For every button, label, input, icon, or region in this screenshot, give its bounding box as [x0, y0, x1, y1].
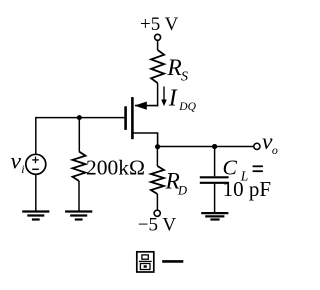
svg-text:DQ: DQ: [178, 101, 196, 113]
terminal vo: [254, 143, 260, 149]
svg-text:10 pF: 10 pF: [223, 177, 271, 201]
resistor RS: [151, 50, 164, 83]
current arrow IDQ: [163, 87, 165, 102]
node -5V supply terminal: [154, 210, 160, 216]
wire RS to source lead: [157, 83, 159, 106]
svg-text:−5 V: −5 V: [138, 215, 177, 236]
wire junction to RD: [156, 147, 158, 167]
caption figure-one char TU inner box: [140, 264, 150, 270]
node drain junction: [155, 144, 160, 149]
wire gate: [36, 117, 125, 119]
caption figure-one char TU inner dot: [144, 265, 147, 267]
svg-text:+5 V: +5 V: [140, 14, 179, 35]
caption figure-one char ONE: [162, 260, 183, 263]
source vi minus: [32, 168, 39, 170]
svg-text:S: S: [181, 70, 188, 85]
node gate junction: [77, 115, 82, 120]
wire RD to -5V terminal: [156, 194, 158, 210]
ground under vi: [22, 210, 49, 212]
wire CL top: [214, 147, 216, 177]
source vi circle: [26, 154, 46, 174]
caption figure-one char TU (outer box): [137, 252, 154, 272]
svg-text:v: v: [11, 149, 22, 175]
node CL junction: [212, 144, 217, 149]
svg-text:i: i: [21, 162, 24, 176]
wire vi to gate: [35, 117, 37, 154]
wire output: [158, 146, 254, 148]
svg-text:I: I: [168, 85, 178, 111]
svg-text:R: R: [166, 55, 181, 81]
transistor M1 channel bar: [131, 97, 134, 139]
wire supply to RS: [157, 40, 159, 50]
wire CL bottom: [214, 184, 216, 212]
caption figure-one char TU inner mouth: [142, 255, 148, 259]
transistor M1 drain lead: [134, 133, 158, 147]
wire vi to ground: [35, 174, 37, 211]
resistor 200k: [73, 152, 86, 182]
svg-text:o: o: [272, 143, 278, 157]
transistor M1 gate bar: [124, 106, 127, 130]
resistor RD: [151, 166, 164, 194]
ground under CL: [201, 212, 228, 214]
capacitor CL bottom plate: [200, 182, 229, 184]
wire 200k to ground: [78, 181, 80, 211]
source vi plus: [32, 159, 39, 161]
wire gate junction to 200k: [78, 118, 80, 152]
node +5V supply terminal: [155, 34, 161, 40]
capacitor CL top plate: [200, 176, 229, 178]
svg-text:200kΩ: 200kΩ: [86, 155, 145, 179]
svg-text:D: D: [177, 183, 187, 197]
transistor M1 source lead with arrow: [135, 105, 158, 107]
ground under 200k: [65, 210, 92, 212]
caption figure-one char TU middle stroke: [139, 260, 152, 262]
